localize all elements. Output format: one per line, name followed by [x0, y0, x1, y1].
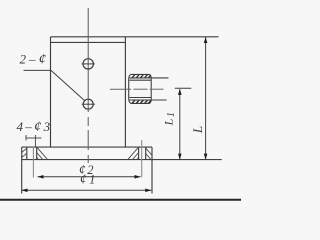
- svg-text:¢1: ¢1: [80, 172, 98, 187]
- svg-text:2–¢: 2–¢: [20, 52, 50, 68]
- svg-text:4–¢3: 4–¢3: [17, 119, 53, 135]
- svg-text:L: L: [190, 126, 205, 134]
